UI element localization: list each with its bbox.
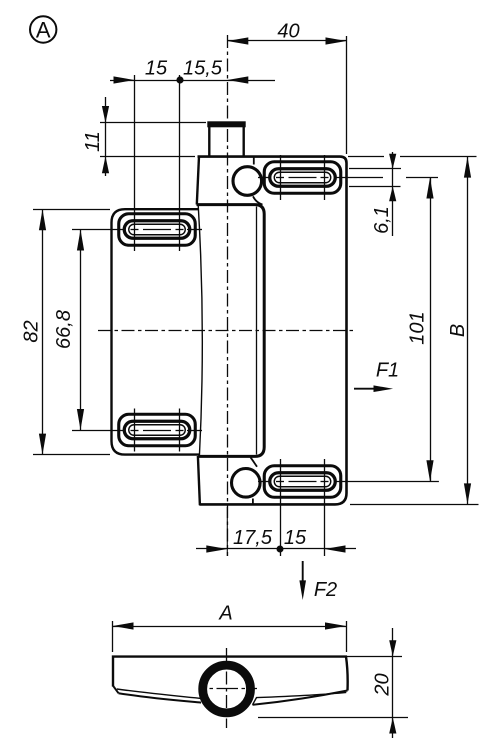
slot bottom-left [119,409,202,452]
view label circle A [30,16,56,42]
left blade inner [117,689,204,702]
svg-text:6,1: 6,1 [371,206,393,234]
dim B [348,157,479,505]
svg-text:B: B [447,324,469,337]
pivot circle top [233,167,262,196]
pin stub body [208,127,210,157]
top block left edge [197,156,199,204]
svg-text:17,5: 17,5 [233,527,273,549]
slot top-left [119,208,202,251]
centerline vertical [226,648,228,728]
left leaf right edge curve [198,205,202,456]
dim 11 [82,97,206,176]
dim 15 / 15,5 top [110,58,275,209]
svg-text:F1: F1 [376,360,399,382]
svg-text:15: 15 [284,527,307,549]
svg-text:82: 82 [21,320,43,342]
dim 101 [334,178,439,482]
svg-text:15: 15 [145,58,168,80]
plan body top + right edge [113,657,348,691]
bottom-left corner slant [113,685,119,693]
dim A [113,603,347,653]
slot bottom-right [258,459,341,556]
centerline horizontal [199,688,257,690]
knuckle ring [203,665,251,713]
dim 20 [258,628,408,738]
svg-text:A: A [218,603,232,625]
slot top-right [258,155,341,200]
right blade inner [253,692,347,704]
fold edge thick [197,205,265,457]
plate edge stub below bottom circle [252,499,254,505]
pivot circle bottom [232,469,261,498]
dim 6,1 [349,152,401,236]
force F2 [299,561,337,601]
dim 82 [21,209,111,454]
vertical centerline [227,35,229,556]
right blade outer [253,691,348,705]
plate edge curve below top circle [253,196,263,204]
svg-text:101: 101 [407,311,429,344]
bottom block left edge [198,456,200,505]
plate edge stub above top circle [253,157,255,165]
force F1 [354,360,399,393]
svg-text:11: 11 [82,131,104,152]
svg-text:A: A [36,17,51,42]
fold edge thin [256,207,258,455]
right leaf outline [198,157,347,505]
svg-text:20: 20 [372,673,394,696]
pin stub cap [207,121,245,127]
dim 66,8 [53,230,124,431]
horizontal centerline [98,330,353,332]
svg-text:15,5: 15,5 [183,58,223,80]
svg-text:F2: F2 [314,579,337,601]
svg-text:66,8: 66,8 [53,310,75,349]
left leaf outline [112,209,200,454]
dim 17,5 / 15 bottom [196,527,356,553]
left blade outer [119,693,202,702]
dim 40 [227,21,346,155]
plate edge curve above bottom circle [251,457,258,467]
svg-text:40: 40 [277,21,299,43]
